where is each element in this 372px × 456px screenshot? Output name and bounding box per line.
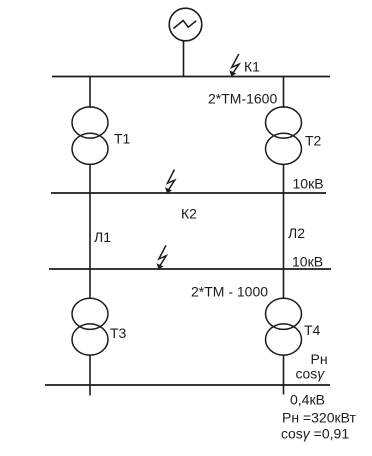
busbar 4 (0.4 kV bus) — [45, 384, 330, 386]
wire bus 1 to transformer T1 — [89, 77, 91, 109]
svg-text:Л1: Л1 — [94, 229, 111, 245]
busbar 2 (10 kV bus) — [51, 192, 326, 194]
svg-text:cosγ =0,91: cosγ =0,91 — [281, 426, 349, 442]
svg-text:cosγ: cosγ — [296, 366, 326, 382]
transformer T3 — [72, 298, 108, 355]
wire bus 3 to transformer T4 — [283, 269, 285, 299]
svg-text:2*ТМ - 1000: 2*ТМ - 1000 — [191, 284, 268, 300]
svg-text:0,4кВ: 0,4кВ — [290, 392, 325, 408]
transformer T1 — [72, 107, 108, 164]
wire T3 to bus 4 — [89, 355, 91, 396]
svg-text:Т4: Т4 — [304, 322, 321, 338]
wire T2 to bus 2 — [283, 164, 285, 193]
svg-text:10кВ: 10кВ — [292, 254, 323, 270]
busbar 3 (10 kV bus) — [49, 268, 331, 270]
feeder line L1 wire — [89, 193, 91, 269]
svg-text:Л2: Л2 — [288, 225, 305, 241]
generator G1 sine zigzag — [173, 21, 196, 29]
svg-text:2*ТМ-1600: 2*ТМ-1600 — [208, 91, 277, 107]
svg-text:Т2: Т2 — [305, 133, 322, 149]
svg-text:К2: К2 — [181, 206, 197, 222]
transformer T4 — [266, 298, 302, 355]
short-circuit arrow K2 — [165, 170, 175, 194]
svg-text:Рн =320кВт: Рн =320кВт — [282, 410, 356, 426]
transformer T2 — [266, 107, 302, 164]
wire generator to bus 1 — [183, 41, 185, 77]
wire T1 to bus 2 — [89, 164, 91, 193]
short-circuit arrow K3 — [157, 245, 167, 269]
svg-text:10кВ: 10кВ — [293, 176, 324, 192]
svg-text:Т1: Т1 — [114, 131, 131, 147]
svg-text:К1: К1 — [244, 59, 260, 75]
svg-text:Т3: Т3 — [110, 325, 127, 341]
wire bus 3 to transformer T3 — [89, 269, 91, 299]
wire bus 1 to transformer T2 — [283, 77, 285, 109]
busbar 1 (station bus) — [52, 76, 330, 78]
feeder line L2 wire — [283, 193, 285, 269]
generator G1 circle — [169, 8, 202, 41]
wire T4 to bus 4 — [283, 355, 285, 395]
short-circuit arrow K1 — [229, 54, 239, 76]
